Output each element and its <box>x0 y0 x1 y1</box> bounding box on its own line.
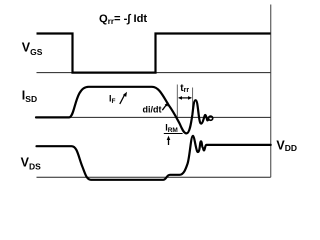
VGS zero baseline <box>37 72 271 74</box>
right vertical border line <box>270 5 272 178</box>
VGS trace <box>37 34 271 73</box>
ISD trace with recovery ringing <box>36 87 209 134</box>
svg-text:di/dt: di/dt <box>143 104 162 114</box>
ISD ringing end loop <box>209 116 213 120</box>
VDS zero baseline <box>37 176 271 178</box>
trr right tick <box>192 88 194 112</box>
VDS trace with recovery spike and VDD settle <box>37 136 271 180</box>
IRM up arrow <box>167 136 171 145</box>
trr left tick <box>176 85 178 118</box>
svg-text:Qrr= -∫ Idt: Qrr= -∫ Idt <box>99 13 147 26</box>
ISD zero baseline <box>36 116 271 118</box>
IF arrow <box>120 92 127 104</box>
trr double arrow <box>178 96 192 100</box>
di/dt arrow <box>162 102 168 110</box>
IRM level line <box>164 133 183 135</box>
